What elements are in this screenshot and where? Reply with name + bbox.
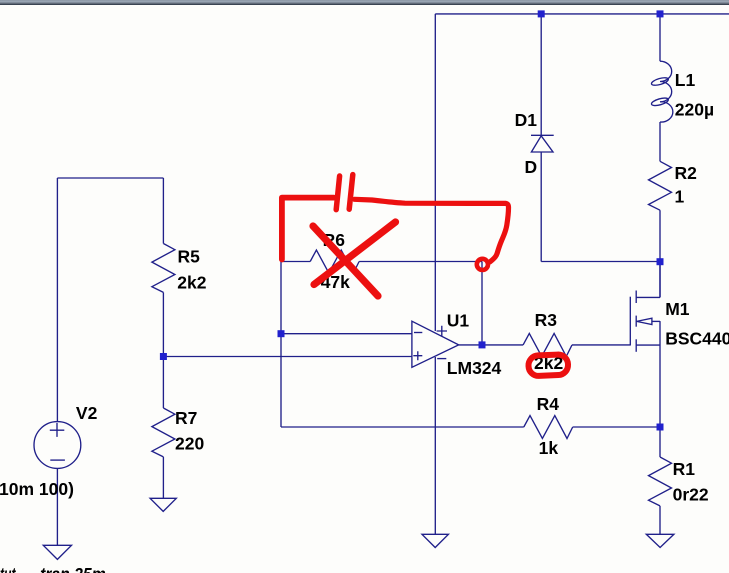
svg-text:BSC440N: BSC440N	[665, 329, 729, 349]
wire R5 top lead	[162, 178, 164, 244]
wire feedback left vertical	[280, 262, 282, 428]
node R5/R7 divider junction	[160, 353, 167, 360]
wire top rail	[435, 13, 729, 15]
wire op-amp V- to ground	[434, 357, 436, 534]
node top rail / L1 junction	[657, 10, 664, 17]
red annotation capacitor wire left	[282, 198, 334, 260]
svg-text:L1: L1	[675, 70, 696, 90]
red annotation ellipse around 2k2	[528, 354, 568, 376]
wire L1 to R2	[659, 122, 661, 161]
ground below R1	[646, 534, 674, 547]
svg-text:R7: R7	[175, 408, 197, 428]
svg-text:.tran 25m: .tran 25m	[36, 564, 106, 573]
svg-text:M1: M1	[665, 299, 690, 319]
resistor R7	[152, 408, 175, 457]
resistor R2	[649, 161, 672, 210]
svg-text:D: D	[525, 157, 538, 177]
svg-text:R4: R4	[537, 394, 560, 414]
svg-text:10m 100): 10m 100)	[0, 479, 74, 499]
wire M1 source vertical	[659, 321, 661, 427]
svg-text:R5: R5	[178, 246, 201, 266]
resistor R1	[649, 457, 672, 506]
wire R7 to ground	[162, 457, 164, 498]
wire D1 cathode branch	[540, 14, 542, 135]
wire R4 right lead	[573, 426, 660, 428]
node inverting input junction	[278, 330, 285, 337]
red annotation capacitor plate 1	[336, 176, 339, 210]
wire feedback right vertical	[481, 262, 483, 345]
svg-text:R1: R1	[673, 459, 696, 479]
svg-text:2k2: 2k2	[177, 273, 206, 293]
wire R3 to M1 gate	[572, 344, 630, 346]
svg-text:V2: V2	[76, 403, 98, 423]
window top bar	[0, 0, 729, 5]
svg-text:0r22: 0r22	[673, 485, 709, 505]
svg-text:U1: U1	[447, 311, 470, 331]
node op-amp output junction	[479, 341, 486, 348]
resistor R4	[524, 416, 573, 439]
red annotation capacitor wire right	[355, 199, 509, 262]
red annotation capacitor plate 2	[349, 175, 353, 210]
svg-text:R2: R2	[675, 163, 698, 183]
red annotation cross stroke 2	[314, 222, 396, 285]
node R2 bottom / D1 / drain junction	[657, 258, 664, 265]
diode D1	[531, 135, 554, 152]
wire R1 top lead	[659, 427, 661, 457]
resistor R3	[523, 333, 572, 356]
wire R4 left row	[281, 426, 524, 428]
wire V2 minus lead	[56, 469, 58, 546]
wire R6 right lead	[359, 261, 482, 263]
node M1 source / R4 / R1 junction	[657, 424, 664, 431]
svg-text:LM324: LM324	[447, 358, 502, 378]
wire R1 to ground	[659, 506, 661, 534]
transistor M1	[630, 262, 660, 352]
wire L1 top lead	[659, 14, 661, 61]
svg-text:1k: 1k	[539, 438, 559, 458]
wire D1 anode branch	[540, 152, 542, 262]
svg-text:tut: tut	[0, 564, 16, 573]
wire noninverting input row	[163, 356, 412, 358]
wire D1 to R2 bottom row	[541, 261, 660, 263]
ground below op-amp	[422, 534, 448, 547]
svg-text:R3: R3	[535, 310, 558, 330]
wire op-amp V+ supply	[434, 14, 436, 331]
svg-text:D1: D1	[515, 110, 538, 130]
resistor R5	[152, 244, 175, 293]
wire R2 bottom to M1 drain	[659, 210, 661, 297]
wire op-amp output	[459, 344, 523, 346]
op-amp U1	[412, 321, 459, 367]
inductor L1	[660, 61, 673, 122]
node top rail / D1 junction	[538, 10, 545, 17]
svg-text:220µ: 220µ	[675, 99, 714, 119]
wire R6 left lead	[281, 261, 310, 263]
red annotation terminal circle	[477, 259, 488, 270]
resistor R6	[310, 250, 359, 273]
red annotation cross stroke 1	[313, 226, 378, 296]
wire V2 plus lead	[56, 178, 58, 421]
svg-text:220: 220	[175, 433, 204, 453]
voltage source V2	[34, 422, 81, 469]
svg-text:1: 1	[675, 187, 685, 207]
wire R5 to R7	[162, 292, 164, 408]
wire inverting input row	[281, 333, 412, 335]
wire V2 top row	[57, 177, 163, 179]
ground below R7	[150, 498, 176, 511]
ground below V2	[43, 545, 71, 559]
